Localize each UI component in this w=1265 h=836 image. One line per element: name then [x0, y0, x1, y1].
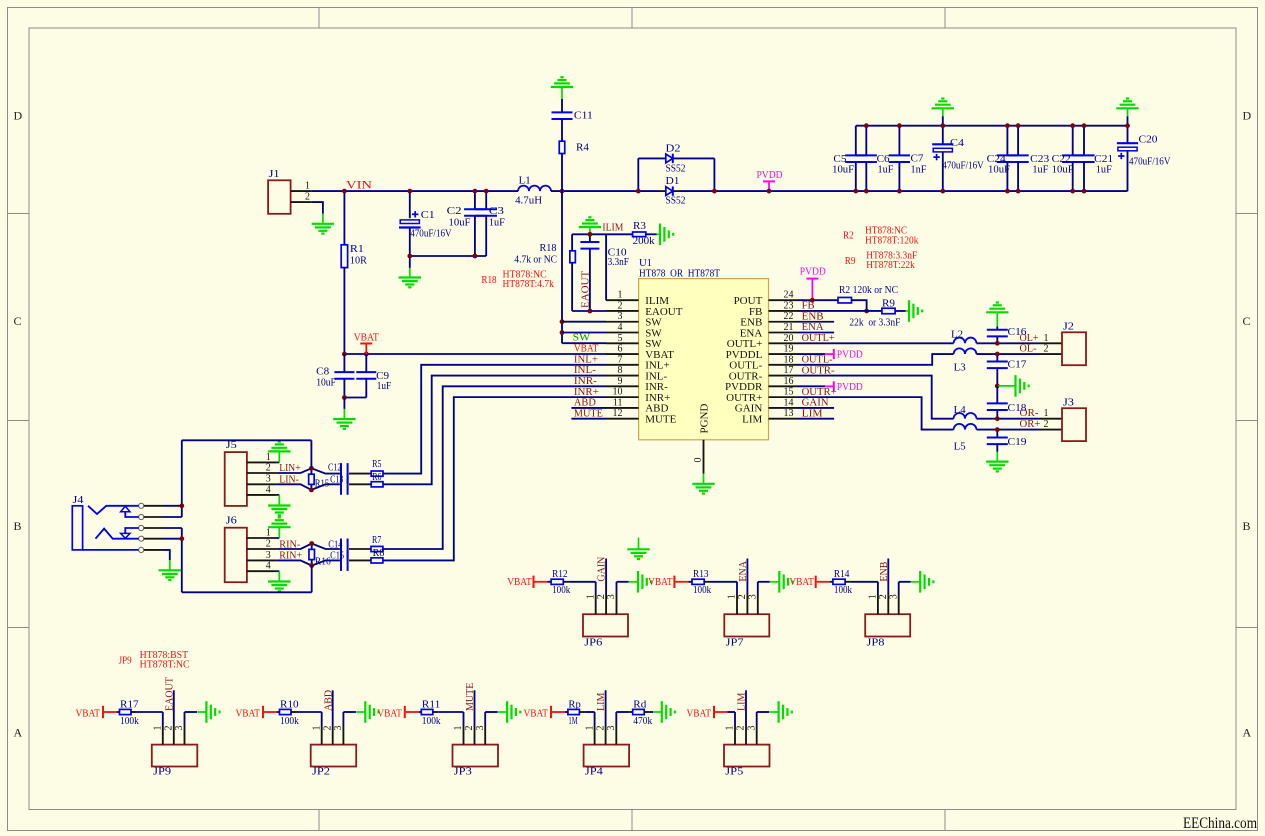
- svg-text:2: 2: [618, 300, 623, 311]
- svg-text:2: 2: [305, 192, 310, 203]
- svg-text:R13: R13: [693, 569, 709, 580]
- svg-text:470uF/16V: 470uF/16V: [410, 228, 452, 239]
- svg-text:OL-: OL-: [1020, 343, 1037, 355]
- svg-text:4: 4: [618, 322, 623, 333]
- svg-text:SW: SW: [573, 332, 591, 344]
- svg-text:2: 2: [266, 462, 271, 473]
- svg-text:2: 2: [322, 726, 333, 731]
- svg-text:D: D: [1243, 109, 1252, 123]
- svg-text:8: 8: [618, 365, 623, 376]
- svg-text:R7: R7: [372, 535, 381, 546]
- svg-text:1: 1: [453, 726, 464, 731]
- svg-text:1M: 1M: [568, 716, 577, 727]
- svg-text:R14: R14: [834, 569, 850, 580]
- svg-text:LIM: LIM: [596, 693, 607, 711]
- svg-text:A: A: [14, 726, 23, 740]
- svg-text:100k: 100k: [552, 585, 570, 596]
- svg-text:C7: C7: [911, 154, 924, 165]
- svg-text:JP9: JP9: [153, 767, 171, 778]
- svg-text:SS52: SS52: [666, 195, 686, 206]
- svg-text:2: 2: [1044, 344, 1049, 355]
- svg-text:SS52: SS52: [666, 163, 686, 174]
- svg-text:JP9: JP9: [119, 655, 132, 666]
- svg-text:R2 120k or NC: R2 120k or NC: [839, 285, 898, 296]
- svg-text:3: 3: [746, 726, 757, 731]
- svg-text:1: 1: [1044, 333, 1049, 344]
- svg-text:RIN-: RIN-: [279, 538, 300, 550]
- svg-text:VBAT: VBAT: [789, 577, 814, 588]
- svg-text:ENA: ENA: [738, 560, 749, 581]
- svg-text:L5: L5: [954, 441, 966, 452]
- svg-text:VBAT: VBAT: [507, 577, 532, 588]
- svg-text:JP2: JP2: [312, 767, 330, 778]
- svg-text:ABD: ABD: [323, 690, 334, 711]
- svg-text:1: 1: [153, 726, 164, 731]
- svg-text:2: 2: [878, 594, 889, 599]
- svg-text:LIM: LIM: [742, 413, 762, 425]
- svg-text:VBAT: VBAT: [648, 577, 673, 588]
- svg-text:10uF: 10uF: [832, 164, 854, 175]
- svg-text:ENB: ENB: [879, 561, 890, 581]
- svg-text:470uF/16V: 470uF/16V: [1129, 157, 1171, 168]
- svg-text:C13: C13: [330, 474, 343, 485]
- svg-text:MUTE: MUTE: [465, 683, 476, 711]
- svg-text:C: C: [14, 314, 22, 328]
- svg-text:1: 1: [868, 594, 879, 599]
- svg-text:J6: J6: [226, 516, 237, 527]
- svg-text:JP4: JP4: [585, 767, 603, 778]
- svg-text:L3: L3: [954, 363, 966, 374]
- svg-text:10uF: 10uF: [316, 378, 336, 389]
- svg-text:1uF: 1uF: [377, 381, 392, 392]
- svg-text:R11: R11: [422, 699, 441, 710]
- svg-text:13: 13: [784, 408, 794, 419]
- svg-text:22: 22: [784, 311, 794, 322]
- svg-text:2: 2: [737, 594, 748, 599]
- svg-text:C2: C2: [447, 206, 462, 217]
- svg-text:1: 1: [266, 527, 271, 538]
- svg-text:C14: C14: [328, 540, 342, 551]
- svg-text:LIM: LIM: [802, 407, 823, 419]
- svg-text:1: 1: [725, 726, 736, 731]
- svg-text:C12: C12: [328, 462, 341, 473]
- svg-text:1: 1: [727, 594, 738, 599]
- svg-text:OUTL+: OUTL+: [802, 332, 835, 344]
- svg-text:Rp: Rp: [568, 699, 580, 710]
- svg-text:RIN+: RIN+: [279, 550, 302, 562]
- svg-text:B: B: [14, 519, 22, 533]
- svg-text:23: 23: [784, 300, 794, 311]
- svg-text:EAOUT: EAOUT: [580, 270, 592, 308]
- svg-text:17: 17: [784, 365, 794, 376]
- svg-text:2: 2: [266, 538, 271, 549]
- svg-text:3: 3: [606, 726, 617, 731]
- svg-text:C8: C8: [316, 367, 329, 378]
- svg-text:EAOUT: EAOUT: [164, 677, 175, 711]
- svg-text:MUTE: MUTE: [574, 407, 603, 419]
- svg-text:L4: L4: [954, 405, 966, 416]
- svg-text:JP8: JP8: [867, 637, 885, 648]
- svg-text:L2: L2: [951, 329, 963, 340]
- svg-text:J3: J3: [1063, 398, 1074, 409]
- svg-text:10R: 10R: [350, 256, 367, 267]
- svg-text:1: 1: [305, 180, 310, 191]
- svg-text:100k: 100k: [422, 716, 441, 727]
- svg-text:OUTR-: OUTR-: [802, 364, 835, 376]
- svg-text:18: 18: [784, 354, 794, 365]
- svg-text:4: 4: [266, 561, 271, 572]
- svg-text:C20: C20: [1139, 135, 1158, 146]
- svg-text:U1: U1: [639, 258, 652, 269]
- svg-text:R5: R5: [372, 459, 381, 470]
- svg-text:C1: C1: [421, 210, 435, 221]
- svg-text:3: 3: [174, 726, 185, 731]
- svg-text:VIN: VIN: [346, 177, 372, 191]
- svg-text:0: 0: [693, 458, 704, 463]
- svg-text:14: 14: [784, 397, 794, 408]
- svg-text:R2: R2: [843, 231, 854, 242]
- svg-text:R12: R12: [552, 569, 568, 580]
- svg-text:B: B: [1243, 519, 1251, 533]
- svg-text:D2: D2: [666, 143, 681, 154]
- svg-text:10uF: 10uF: [988, 164, 1010, 175]
- svg-text:100k: 100k: [834, 585, 852, 596]
- svg-text:100k: 100k: [280, 716, 299, 727]
- svg-text:C15: C15: [330, 551, 344, 562]
- svg-text:R6: R6: [372, 472, 381, 483]
- svg-text:7: 7: [618, 354, 623, 365]
- svg-text:PVDD: PVDD: [757, 169, 783, 181]
- svg-text:OR+: OR+: [1020, 418, 1041, 430]
- svg-text:MUTE: MUTE: [645, 413, 676, 425]
- svg-text:C11: C11: [574, 111, 593, 122]
- svg-text:1: 1: [585, 594, 596, 599]
- svg-text:C3: C3: [489, 206, 504, 217]
- svg-text:3: 3: [888, 594, 899, 599]
- svg-text:VBAT: VBAT: [236, 709, 261, 720]
- svg-text:2: 2: [1044, 419, 1049, 430]
- svg-text:1uF: 1uF: [878, 164, 894, 175]
- svg-text:3: 3: [475, 726, 486, 731]
- svg-text:VBAT: VBAT: [354, 333, 380, 344]
- svg-text:2: 2: [736, 726, 747, 731]
- svg-text:1nF: 1nF: [911, 164, 927, 175]
- svg-text:R1: R1: [350, 244, 364, 255]
- svg-text:11: 11: [613, 397, 623, 408]
- svg-text:10uF: 10uF: [449, 218, 471, 229]
- svg-text:R9: R9: [882, 299, 895, 310]
- svg-text:A: A: [1243, 726, 1252, 740]
- svg-text:EEChina.com: EEChina.com: [1183, 815, 1257, 832]
- svg-text:10: 10: [613, 387, 623, 398]
- svg-text:15: 15: [784, 387, 794, 398]
- svg-text:J1: J1: [269, 169, 280, 180]
- svg-text:3: 3: [333, 726, 344, 731]
- svg-text:3: 3: [266, 550, 271, 561]
- svg-text:PVDD: PVDD: [837, 381, 863, 393]
- svg-text:R18: R18: [481, 275, 496, 286]
- svg-text:9: 9: [618, 376, 623, 387]
- svg-text:R17: R17: [120, 699, 139, 710]
- svg-text:16: 16: [784, 376, 794, 387]
- svg-text:1uF: 1uF: [1096, 164, 1112, 175]
- svg-text:LIM: LIM: [737, 693, 748, 711]
- svg-text:1: 1: [1044, 408, 1049, 419]
- svg-text:1uF: 1uF: [489, 218, 505, 229]
- svg-text:19: 19: [784, 344, 794, 355]
- svg-text:JP5: JP5: [725, 767, 743, 778]
- svg-text:2: 2: [595, 726, 606, 731]
- svg-text:JP7: JP7: [726, 637, 744, 648]
- svg-text:PVDD: PVDD: [837, 349, 863, 361]
- svg-text:C19: C19: [1008, 437, 1027, 448]
- svg-text:R9: R9: [845, 256, 856, 267]
- svg-text:R18: R18: [540, 243, 557, 254]
- svg-text:4: 4: [266, 484, 271, 495]
- svg-text:HT878T:4.7k: HT878T:4.7k: [503, 279, 554, 290]
- svg-text:3: 3: [606, 594, 617, 599]
- svg-text:1: 1: [266, 452, 271, 463]
- svg-text:24: 24: [784, 290, 794, 301]
- svg-text:R4: R4: [576, 142, 589, 153]
- svg-text:470k: 470k: [633, 716, 652, 727]
- svg-text:12: 12: [613, 408, 623, 419]
- svg-text:HT878T:120k: HT878T:120k: [865, 236, 918, 247]
- svg-text:3: 3: [748, 594, 759, 599]
- svg-text:JP3: JP3: [454, 767, 472, 778]
- svg-text:VBAT: VBAT: [524, 709, 549, 720]
- svg-text:3.3nF: 3.3nF: [608, 257, 630, 268]
- svg-text:HT878 OR HT878T: HT878 OR HT878T: [639, 269, 720, 280]
- svg-text:C4: C4: [950, 138, 964, 149]
- svg-text:R16: R16: [315, 556, 331, 567]
- svg-text:4.7uH: 4.7uH: [515, 196, 542, 207]
- svg-text:J4: J4: [73, 495, 84, 506]
- svg-text:1: 1: [311, 726, 322, 731]
- svg-text:6: 6: [618, 344, 623, 355]
- svg-text:J2: J2: [1063, 321, 1074, 332]
- svg-text:R3: R3: [633, 221, 646, 232]
- svg-text:1: 1: [584, 726, 595, 731]
- svg-text:LIN-: LIN-: [279, 473, 299, 485]
- svg-text:2: 2: [464, 726, 475, 731]
- svg-text:22k or 3.3nF: 22k or 3.3nF: [849, 317, 900, 328]
- svg-text:VBAT: VBAT: [377, 709, 402, 720]
- svg-text:4.7k or NC: 4.7k or NC: [514, 254, 557, 265]
- svg-text:GAIN: GAIN: [597, 557, 608, 582]
- svg-text:100k: 100k: [693, 585, 711, 596]
- svg-text:21: 21: [784, 322, 794, 333]
- svg-text:R10: R10: [280, 699, 299, 710]
- svg-text:D: D: [14, 109, 23, 123]
- svg-text:3: 3: [266, 474, 271, 485]
- svg-text:HT878T:NC: HT878T:NC: [140, 660, 190, 671]
- svg-text:5: 5: [618, 333, 623, 344]
- svg-text:ILIM: ILIM: [602, 222, 623, 234]
- svg-text:20: 20: [784, 333, 794, 344]
- svg-text:J5: J5: [226, 440, 237, 451]
- svg-text:R8: R8: [373, 548, 385, 559]
- svg-text:200k: 200k: [633, 236, 655, 247]
- svg-text:C: C: [1243, 314, 1251, 328]
- svg-text:100k: 100k: [120, 716, 139, 727]
- svg-text:2: 2: [596, 594, 607, 599]
- svg-text:2: 2: [164, 726, 175, 731]
- svg-text:10uF: 10uF: [1052, 164, 1074, 175]
- svg-text:1uF: 1uF: [1032, 164, 1048, 175]
- svg-text:L1: L1: [519, 175, 531, 186]
- svg-text:D1: D1: [666, 176, 680, 187]
- svg-text:JP6: JP6: [584, 637, 602, 648]
- svg-text:C17: C17: [1008, 359, 1027, 370]
- svg-text:R15: R15: [315, 479, 329, 490]
- svg-text:PGND: PGND: [699, 403, 711, 433]
- svg-text:470uF/16V: 470uF/16V: [942, 160, 984, 171]
- svg-text:VBAT: VBAT: [76, 709, 101, 720]
- svg-text:3: 3: [618, 311, 623, 322]
- svg-text:HT878T:22k: HT878T:22k: [866, 260, 915, 271]
- svg-text:Rd: Rd: [633, 699, 646, 710]
- svg-text:1: 1: [618, 290, 623, 301]
- svg-text:VBAT: VBAT: [687, 709, 712, 720]
- svg-text:PVDD: PVDD: [800, 265, 826, 277]
